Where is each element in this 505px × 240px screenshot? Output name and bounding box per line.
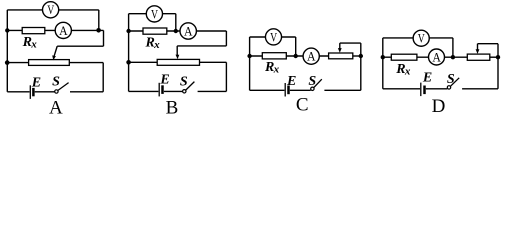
svg-text:V: V [270,29,277,44]
svg-text:S: S [447,72,455,87]
svg-text:S: S [180,75,188,90]
svg-text:A: A [184,23,193,38]
svg-text:x: x [153,39,160,51]
svg-text:x: x [404,66,411,78]
svg-text:V: V [47,2,54,17]
svg-text:B: B [166,97,179,116]
svg-text:V: V [151,6,158,21]
svg-text:E: E [31,75,41,90]
svg-text:A: A [59,23,68,38]
svg-text:S: S [308,74,316,89]
svg-text:C: C [296,95,309,116]
svg-text:E: E [159,73,169,88]
svg-text:S: S [52,75,60,90]
svg-text:A: A [307,49,316,64]
svg-text:E: E [286,74,296,89]
svg-text:A: A [432,49,441,64]
svg-text:V: V [418,31,425,46]
svg-text:A: A [49,97,63,116]
svg-text:x: x [30,38,37,50]
svg-text:E: E [422,71,432,86]
svg-text:D: D [432,96,446,116]
svg-text:x: x [273,64,280,76]
